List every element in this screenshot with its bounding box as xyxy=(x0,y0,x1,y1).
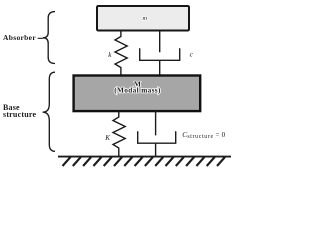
label Absorber xyxy=(3,33,36,42)
dash connector absorber xyxy=(38,37,43,39)
svg-text:K: K xyxy=(104,134,111,142)
ground hatching xyxy=(63,157,226,166)
svg-text:Absorber: Absorber xyxy=(3,33,36,42)
label Base structure xyxy=(3,103,36,119)
mass m xyxy=(97,6,189,31)
brace absorber xyxy=(43,12,55,64)
mass M xyxy=(74,76,201,112)
spring K xyxy=(113,111,125,156)
svg-text:M: M xyxy=(134,79,141,88)
brace base structure xyxy=(43,72,55,151)
svg-text:c: c xyxy=(190,51,194,59)
svg-text:Cstructure = 0: Cstructure = 0 xyxy=(182,130,225,140)
svg-text:structure: structure xyxy=(3,110,36,119)
svg-text:m: m xyxy=(142,15,147,22)
damper c xyxy=(140,31,180,76)
ground line xyxy=(58,156,231,158)
damper C_structure xyxy=(138,111,176,156)
spring k xyxy=(115,31,127,76)
svg-text:k: k xyxy=(108,51,112,59)
